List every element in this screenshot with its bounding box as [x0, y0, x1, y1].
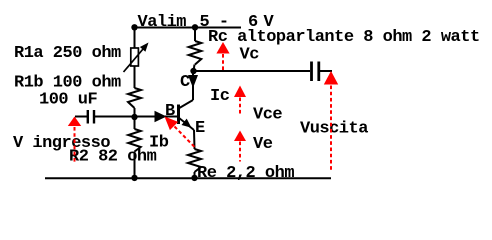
junction collector node	[190, 68, 196, 74]
resistor R1a potentiometer body	[131, 48, 139, 66]
svg-text:R1a 250 ohm: R1a 250 ohm	[14, 44, 121, 63]
wire input from Vin arrow to capacitor	[75, 116, 87, 118]
red arrow Ve	[234, 131, 246, 142]
resistor Rc zigzag	[189, 41, 202, 65]
wire Re to ground rail	[194, 172, 196, 178]
svg-text:Valim: Valim	[138, 13, 187, 32]
capacitor C1 100uF plates	[87, 110, 89, 124]
black arrow base current direction	[155, 111, 167, 122]
wire collector vertical	[192, 71, 194, 100]
junction R2/ground	[131, 175, 137, 181]
wire capacitor to base with junction	[95, 116, 178, 118]
red arrow Vbe diagonal (emitter to base)	[165, 117, 179, 131]
wire Rc to collector node	[194, 65, 195, 72]
resistor R1b zigzag	[128, 88, 141, 108]
svg-text:R2 82 ohm: R2 82 ohm	[69, 148, 157, 167]
wire top supply rail	[134, 27, 241, 29]
red arrow Vuscita (output voltage)	[324, 71, 338, 85]
svg-text:100 uF: 100 uF	[39, 91, 98, 110]
red arrow V ingresso (input voltage)	[68, 117, 81, 127]
wire left column top (rail to R1a)	[134, 28, 136, 49]
junction supply/Rc	[192, 24, 198, 30]
transistor Q1 base bar	[177, 105, 180, 125]
capacitor C2 output plates	[310, 62, 313, 82]
svg-text:Ic: Ic	[210, 87, 230, 106]
black arrow collector current direction	[188, 75, 198, 88]
svg-text:Vuscita: Vuscita	[300, 120, 368, 139]
wire bottom ground rail	[45, 177, 331, 179]
junction node input/R1b/R2	[131, 114, 137, 120]
resistor R1a wiper arrow	[124, 46, 147, 73]
svg-text:Vce: Vce	[253, 106, 282, 125]
resistor Re zigzag	[188, 149, 201, 172]
wire rail to Rc	[194, 28, 196, 42]
wire R1b to input node	[134, 108, 136, 117]
svg-text:Ve: Ve	[253, 135, 273, 154]
wire collector node to output capacitor	[194, 70, 311, 72]
transistor Q1 emitter diagonal	[179, 118, 195, 131]
resistor R2 zigzag	[128, 129, 140, 152]
junction supply/R1a	[131, 24, 137, 30]
black arrow emitter (NPN)	[182, 119, 192, 128]
svg-text:E: E	[195, 119, 205, 138]
red arrow Vce / Ic	[234, 86, 246, 98]
wire emitter to Re	[193, 130, 196, 149]
junction Re/ground	[191, 175, 197, 181]
wire capacitor to output	[320, 70, 332, 72]
svg-text:Rc altoparlante 8 ohm 2 watt: Rc altoparlante 8 ohm 2 watt	[208, 28, 480, 47]
wire node to R2	[134, 117, 136, 129]
svg-text:Vc: Vc	[240, 46, 260, 65]
wire R1a to R1b	[134, 66, 136, 88]
svg-text:Re 2,2 ohm: Re 2,2 ohm	[197, 164, 294, 183]
red arrow Vc	[216, 42, 229, 54]
wire R2 to ground rail	[134, 152, 136, 179]
transistor Q1 collector diagonal	[179, 100, 194, 109]
